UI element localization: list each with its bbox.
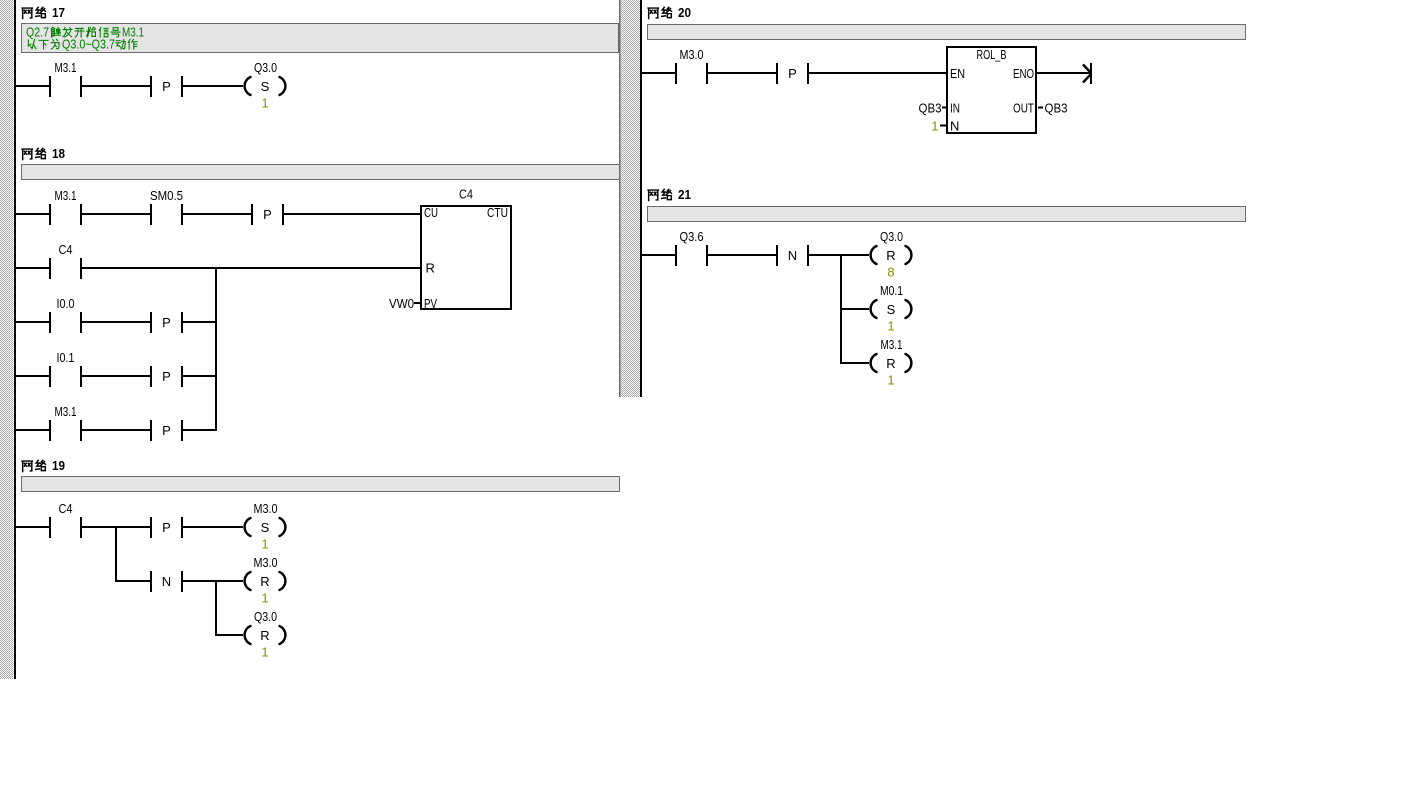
- svg-text:QB3: QB3: [1045, 101, 1068, 116]
- svg-text:CTU: CTU: [487, 205, 508, 220]
- svg-text:P: P: [162, 423, 171, 438]
- wire M3.0 to P: [708, 72, 776, 74]
- wire ENO to open arrow: [1037, 72, 1090, 74]
- svg-text:R: R: [260, 574, 269, 589]
- svg-text:Q3.6: Q3.6: [680, 229, 704, 244]
- branch vertical 2 (network 19): [215, 580, 217, 636]
- wire rail to C4 contact: [16, 267, 49, 269]
- svg-text:M3.0: M3.0: [680, 47, 704, 62]
- contact M3.1 (network 17): [49, 60, 82, 97]
- svg-text:M3.1: M3.1: [55, 60, 77, 75]
- network 17 comment box: [22, 24, 619, 53]
- svg-text:N: N: [788, 248, 797, 263]
- contact C4 contact (network 18): [49, 242, 82, 279]
- svg-text:1: 1: [887, 319, 894, 334]
- svg-text:1: 1: [931, 119, 938, 134]
- contact M3.0 (network 20): [675, 47, 708, 84]
- branch vertical 1 (network 19): [115, 526, 117, 582]
- wire branch to coil Q3.0 R: [217, 634, 243, 636]
- svg-text:EN: EN: [950, 66, 965, 81]
- network 17 comment text line 1: [26, 25, 144, 40]
- function box ROL_B: [947, 47, 1036, 134]
- wire rail to M3.1 row1: [16, 213, 49, 215]
- coil Q3.0 set (S): [245, 60, 286, 111]
- wire rail to C4 contact (network 19): [16, 526, 49, 528]
- svg-text:P: P: [162, 520, 171, 535]
- contact N edge contact (network 19): [150, 571, 183, 592]
- network title network 18: [22, 146, 65, 161]
- svg-text:17: 17: [52, 5, 65, 20]
- svg-text:Q3.0~Q3.7: Q3.0~Q3.7: [62, 37, 115, 52]
- svg-text:M3.1: M3.1: [122, 25, 144, 40]
- contact SM0.5: [150, 188, 183, 225]
- wire I0.1 to P: [82, 375, 150, 377]
- wire P to coil M3.0 S: [183, 526, 243, 528]
- svg-text:8: 8: [887, 265, 894, 280]
- coil M0.1 set (S): [871, 283, 912, 334]
- pane separator left edge line: [619, 0, 621, 397]
- svg-text:Q3.0: Q3.0: [880, 229, 903, 244]
- right power rail: [640, 0, 642, 397]
- network title network 17: [22, 5, 65, 20]
- contact P edge contact (row I0.0): [150, 312, 183, 333]
- wire branch to N contact: [117, 580, 150, 582]
- svg-text:C4: C4: [59, 501, 73, 516]
- svg-text:P: P: [162, 315, 171, 330]
- wire rail to I0.1: [16, 375, 49, 377]
- wire branch to coil M0.1 S: [842, 308, 869, 310]
- svg-text:C4: C4: [459, 187, 473, 202]
- svg-text:P: P: [263, 207, 272, 222]
- svg-text:R: R: [886, 248, 895, 263]
- wire N to coil Q3.0 R: [809, 254, 869, 256]
- svg-text:N: N: [950, 119, 959, 134]
- coil M3.0 set (S): [245, 501, 286, 552]
- counter box C4 CTU: [421, 187, 511, 312]
- svg-text:I0.1: I0.1: [57, 350, 75, 365]
- contact M3.1 (network 18 row 5): [49, 404, 82, 441]
- svg-text:ROL_B: ROL_B: [977, 47, 1007, 62]
- network title network 20: [648, 5, 691, 20]
- svg-text:P: P: [162, 79, 171, 94]
- svg-text:Q2.7: Q2.7: [26, 25, 49, 40]
- svg-text:SM0.5: SM0.5: [150, 188, 183, 203]
- svg-text:QB3: QB3: [919, 101, 942, 116]
- svg-text:1: 1: [887, 373, 894, 388]
- contact P edge contact (network 17): [150, 76, 183, 97]
- open branch arrow (network 20 output): [1083, 63, 1092, 84]
- svg-text:M3.1: M3.1: [55, 188, 77, 203]
- svg-text:M3.1: M3.1: [881, 337, 903, 352]
- wire branch to coil M3.1 R: [842, 362, 869, 364]
- contact P edge contact (network 20): [776, 63, 809, 84]
- operand QB3 at IN input: [919, 101, 948, 116]
- contact P edge contact (row I0.1): [150, 366, 183, 387]
- svg-text:M0.1: M0.1: [880, 283, 903, 298]
- svg-text:R: R: [260, 628, 269, 643]
- wire rail to M3.1: [16, 85, 49, 87]
- network 19 comment bar (empty): [22, 477, 620, 492]
- svg-text:Q3.0: Q3.0: [254, 609, 277, 624]
- left pane margin strip: [0, 0, 14, 679]
- left power rail: [14, 0, 16, 679]
- wire M3.1 to P: [82, 85, 150, 87]
- contact C4 contact (network 19): [49, 501, 82, 538]
- contact I0.1: [49, 350, 82, 387]
- wire C4 to P: [82, 526, 150, 528]
- contact I0.0: [49, 296, 82, 333]
- constant 1 at N input: [931, 119, 946, 134]
- wire P to ROL_B box EN: [809, 72, 946, 74]
- svg-text:P: P: [162, 369, 171, 384]
- network title network 19: [22, 458, 65, 473]
- wire P to branch: [183, 321, 215, 323]
- svg-text:PV: PV: [424, 296, 437, 311]
- coil Q3.0 reset (R): [245, 609, 286, 660]
- wire rail to Q3.6: [642, 254, 675, 256]
- svg-text:CU: CU: [424, 205, 438, 220]
- operand QB3 at OUT output: [1038, 101, 1068, 116]
- svg-text:1: 1: [261, 537, 268, 552]
- wire N to coil M3.0 R: [183, 580, 243, 582]
- wire Q3.6 to N: [708, 254, 776, 256]
- svg-text:1: 1: [261, 591, 268, 606]
- svg-text:S: S: [261, 79, 270, 94]
- wire I0.0 to P: [82, 321, 150, 323]
- svg-text:VW0: VW0: [389, 296, 414, 311]
- svg-text:OUT: OUT: [1013, 101, 1034, 116]
- svg-text:1: 1: [261, 96, 268, 111]
- network 21 comment bar (empty): [648, 207, 1246, 222]
- svg-text:M3.0: M3.0: [254, 501, 278, 516]
- wire P to coil: [183, 85, 243, 87]
- network 18 comment bar (empty): [22, 165, 620, 180]
- contact P edge contact (network 18): [251, 204, 284, 225]
- wire M3.1 to SM0.5: [82, 213, 150, 215]
- svg-text:20: 20: [678, 5, 691, 20]
- pane separator hatch strip: [621, 0, 641, 397]
- svg-text:ENO: ENO: [1013, 66, 1034, 81]
- wire P to C4 box CU: [284, 213, 421, 215]
- network title network 21: [648, 187, 691, 202]
- network 17 comment text line 2: [28, 37, 137, 52]
- contact M3.1 (network 18 row 1): [49, 188, 82, 225]
- contact P edge contact (network 19): [150, 517, 183, 538]
- wire M3.1 to P: [82, 429, 150, 431]
- operand VW0 at PV input: [389, 296, 420, 311]
- svg-text:18: 18: [52, 146, 65, 161]
- svg-text:S: S: [887, 302, 896, 317]
- branch vertical (network 18): [215, 267, 217, 431]
- svg-text:21: 21: [678, 187, 691, 202]
- svg-text:C4: C4: [59, 242, 73, 257]
- svg-text:M3.0: M3.0: [254, 555, 278, 570]
- svg-text:N: N: [162, 574, 171, 589]
- wire C4 contact to box R input: [82, 267, 420, 269]
- wire P to branch: [183, 429, 215, 431]
- svg-text:IN: IN: [950, 101, 960, 116]
- svg-text:P: P: [788, 66, 797, 81]
- wire SM0.5 to P: [183, 213, 251, 215]
- wire P to branch: [183, 375, 215, 377]
- coil M3.1 reset (R): [871, 337, 912, 388]
- svg-text:S: S: [261, 520, 270, 535]
- coil Q3.0 reset (network 21) (R): [871, 229, 912, 280]
- svg-text:R: R: [426, 261, 435, 276]
- contact Q3.6: [675, 229, 708, 266]
- branch vertical (network 21): [840, 254, 842, 364]
- contact P edge contact (row M3.1): [150, 420, 183, 441]
- svg-text:Q3.0: Q3.0: [254, 60, 277, 75]
- network 20 comment bar (empty): [648, 25, 1246, 40]
- coil M3.0 reset (R): [245, 555, 286, 606]
- svg-text:R: R: [886, 356, 895, 371]
- svg-text:I0.0: I0.0: [57, 296, 75, 311]
- svg-text:19: 19: [52, 458, 65, 473]
- wire rail to M3.1 row5: [16, 429, 49, 431]
- wire rail to M3.0: [642, 72, 675, 74]
- contact N edge contact (network 21): [776, 245, 809, 266]
- svg-text:1: 1: [261, 645, 268, 660]
- svg-text:M3.1: M3.1: [55, 404, 77, 419]
- wire rail to I0.0: [16, 321, 49, 323]
